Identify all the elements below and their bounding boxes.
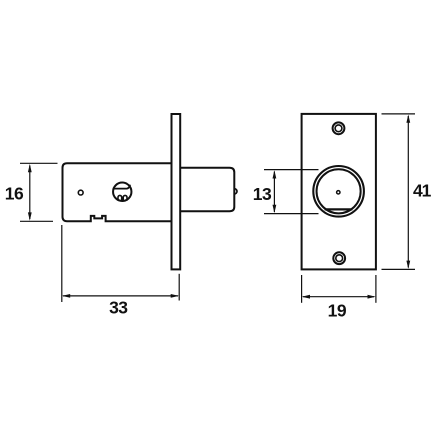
dimension 33: right extension line bbox=[178, 274, 180, 301]
faceplate (side view) bbox=[172, 114, 181, 269]
dimension 41: top extension line bbox=[382, 113, 416, 115]
dimension 33: right arrowhead bbox=[171, 294, 179, 298]
dimension 41: bottom arrowhead bbox=[406, 261, 410, 269]
dimension 19: left extension line bbox=[301, 275, 303, 303]
bolt face outer circle bbox=[313, 166, 364, 217]
dimension 19: right extension line bbox=[375, 275, 377, 303]
fixing hole (small circle) bbox=[78, 190, 83, 195]
dimension 16: bottom extension line bbox=[20, 220, 53, 222]
dimension 16: bottom arrowhead bbox=[28, 212, 32, 220]
dimension 33: dimension line bbox=[63, 295, 178, 297]
follower prongs bbox=[118, 195, 127, 200]
dimension 41: top arrowhead bbox=[406, 115, 410, 123]
bolt face center dot bbox=[337, 191, 340, 194]
dimension 33: left extension line bbox=[61, 225, 63, 302]
dimension 41: bottom extension line bbox=[382, 268, 416, 270]
svg-text:13: 13 bbox=[253, 184, 272, 204]
dimension 13: bottom extension line bbox=[264, 213, 319, 215]
svg-text:41: 41 bbox=[413, 180, 432, 200]
bolt (side view) bbox=[181, 168, 234, 212]
bolt detent bump bbox=[234, 189, 237, 194]
dimension 19: dimension line bbox=[303, 296, 374, 298]
bolt face chord bbox=[325, 208, 353, 210]
svg-text:33: 33 bbox=[109, 298, 128, 318]
dimension 19: right arrowhead bbox=[368, 295, 376, 299]
bottom screw hole bbox=[333, 252, 345, 264]
dimension 13: top arrowhead bbox=[273, 170, 277, 178]
dimension 13: bottom arrowhead bbox=[273, 205, 277, 213]
svg-text:16: 16 bbox=[5, 183, 24, 203]
faceplate (front view) bbox=[302, 114, 376, 270]
dimension 16: top arrowhead bbox=[28, 164, 32, 172]
dimension 19: left arrowhead bbox=[302, 295, 310, 299]
follower chord line bbox=[113, 185, 130, 189]
dimension 41: dimension line bbox=[407, 116, 409, 268]
top screw hole bbox=[333, 122, 345, 134]
dimension 16: top extension line bbox=[20, 162, 58, 164]
dimension 33: left arrowhead bbox=[62, 294, 70, 298]
bolt face inner circle bbox=[317, 169, 361, 213]
svg-text:19: 19 bbox=[328, 301, 347, 321]
dimension 16: dimension line bbox=[29, 166, 31, 220]
lock body (side view) bbox=[63, 163, 172, 221]
spindle follower circle bbox=[113, 183, 131, 201]
dimension 13: dimension line bbox=[273, 172, 275, 213]
dimension 13: top extension line bbox=[264, 169, 319, 171]
